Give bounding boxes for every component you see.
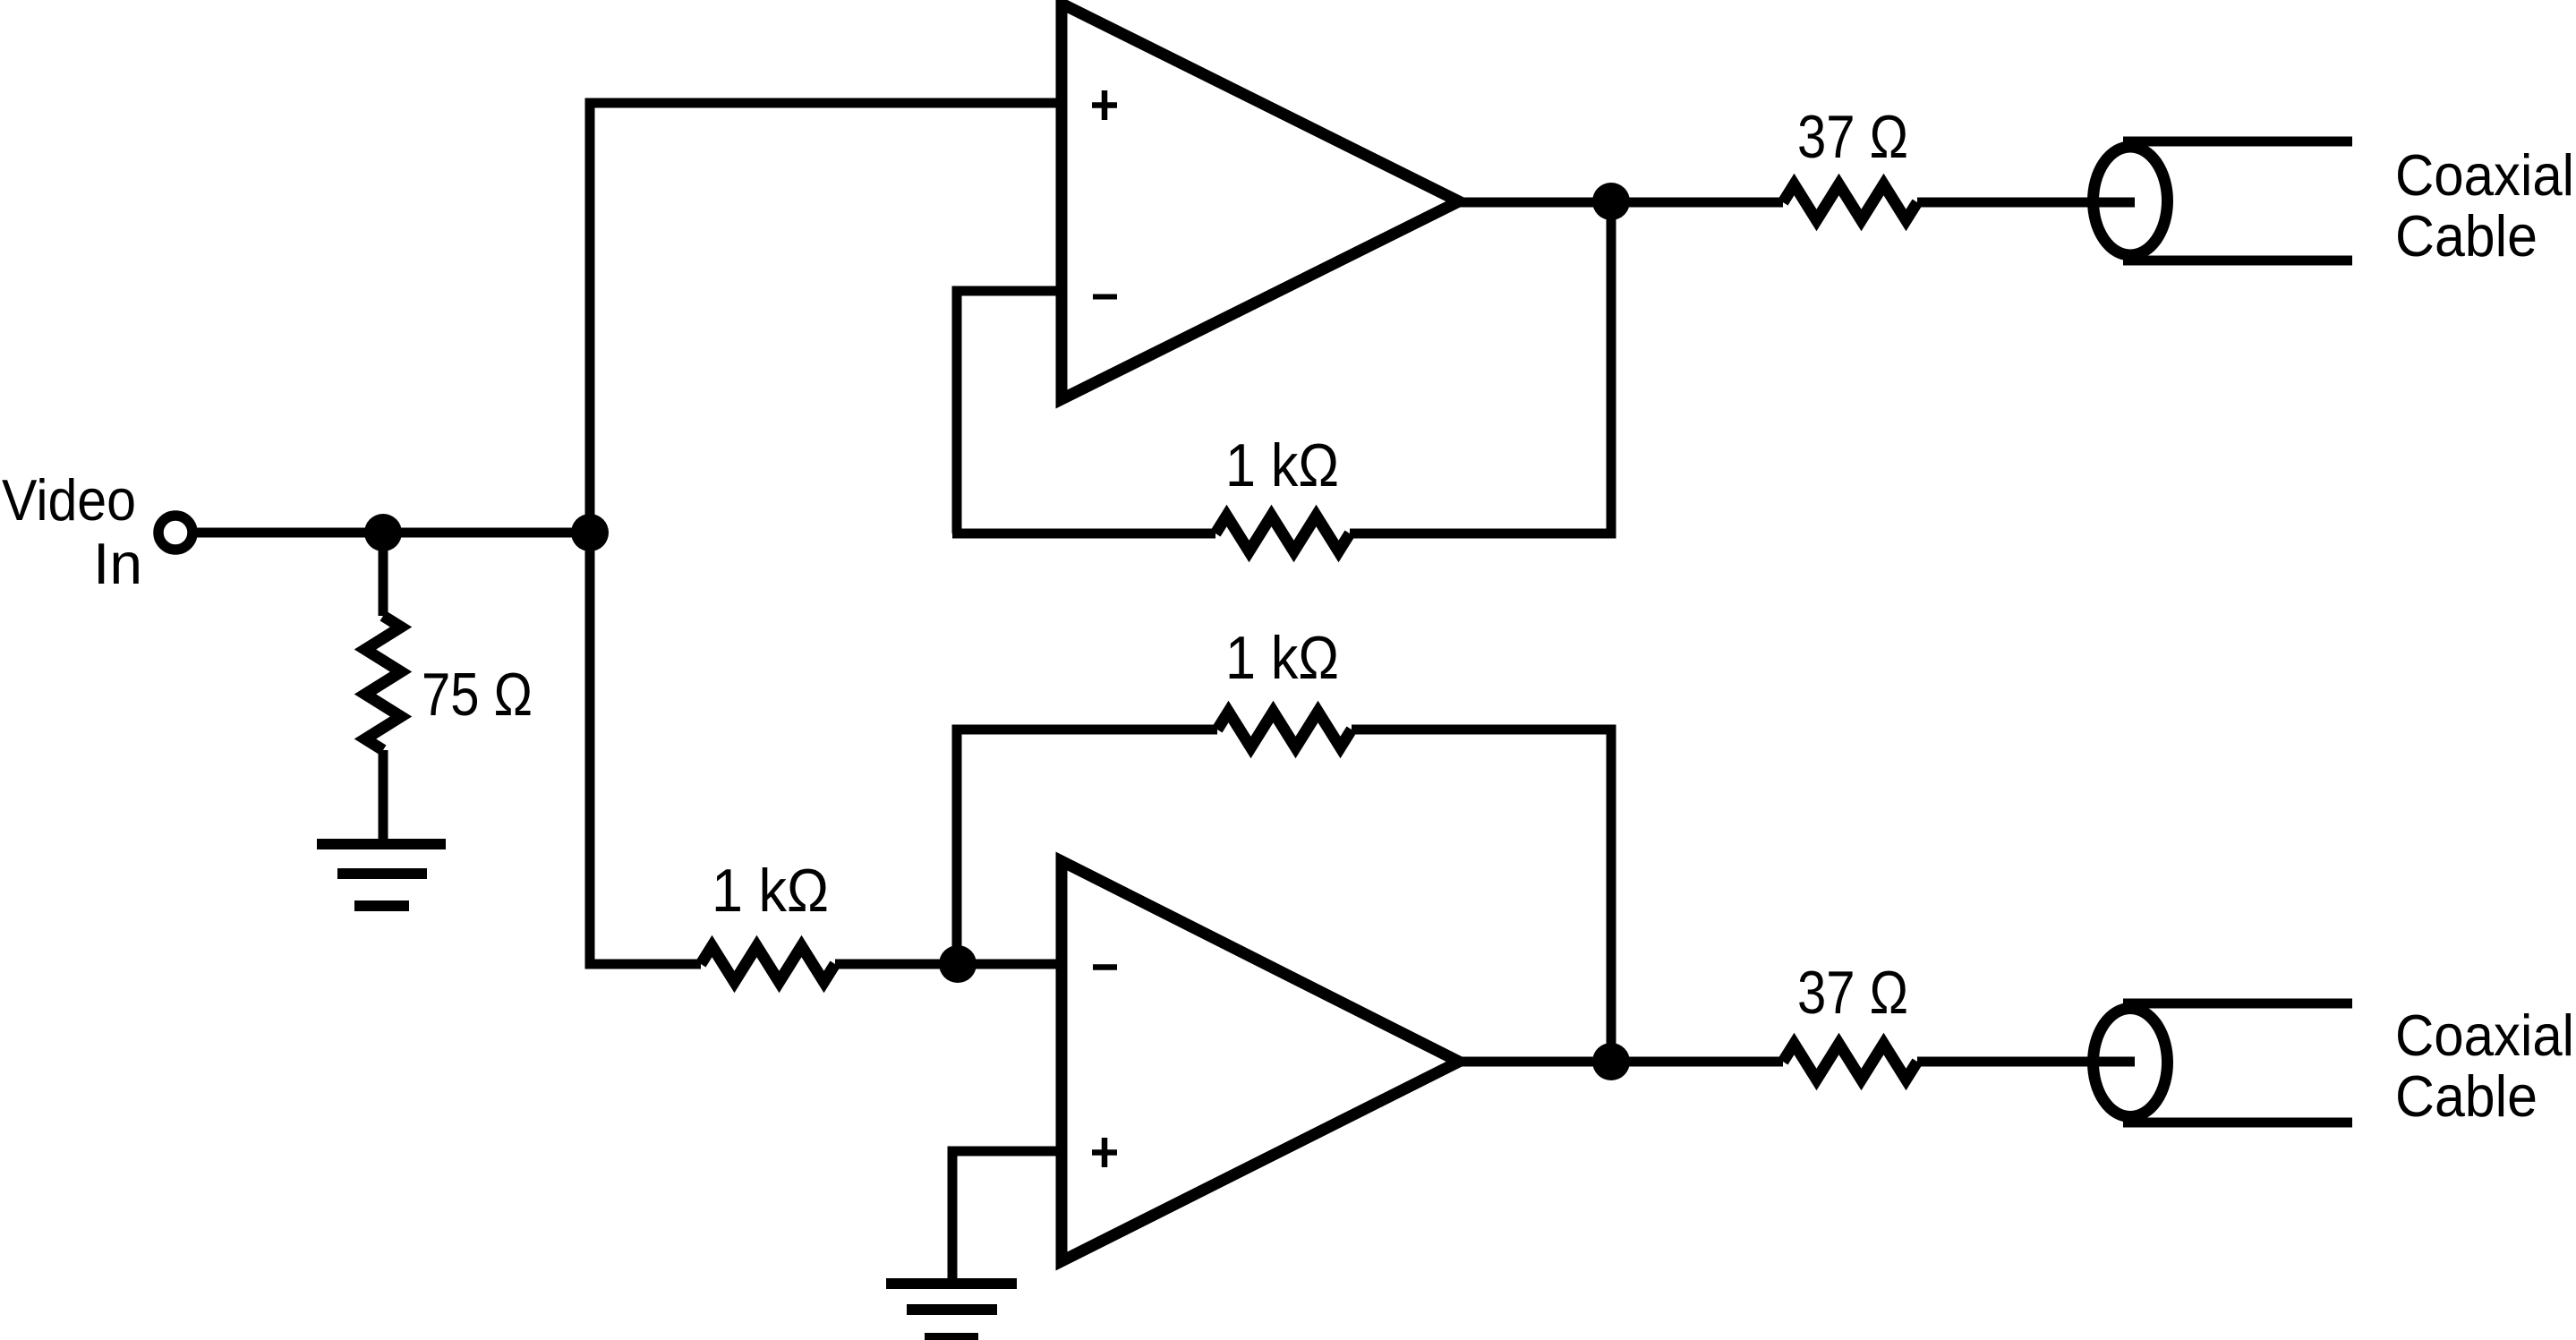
wire: top feedback right segment up to output [1350,201,1611,533]
label Video In [2,467,142,596]
wire: + input of U2 to ground [952,1151,1062,1284]
svg-text:Cable: Cable [2395,1063,2538,1129]
- sign of U1 [1093,294,1117,300]
+ sign of U1 [1092,90,1117,120]
junction at U2 - input node [939,945,977,983]
svg-text:75 Ω: 75 Ω [422,661,533,729]
resistor 37 ohm (bottom) [1783,1044,1917,1080]
ground G1 [317,839,446,849]
svg-text:1 kΩ: 1 kΩ [1225,431,1339,499]
node: Video In input terminal [158,516,192,550]
label Coaxial Cable (bottom) [2395,1003,2574,1129]
svg-text:In: In [93,531,142,596]
label Coaxial Cable (top) [2395,142,2574,269]
coax connector 2 (ellipse) [2094,1009,2168,1117]
wire: U1 output [1459,198,1783,208]
+ sign of U2 [1092,1138,1117,1167]
wire: 37 ohm to coax 1 [1917,198,2135,208]
wire: U2 output [1459,1057,1783,1067]
svg-text:Coaxial: Coaxial [2395,142,2574,208]
resistor 75 ohm (vertical zigzag) [365,616,401,750]
wire: feedback 2 right segment down to output [1352,730,1611,1062]
wire: split node down to input resistor of U2 [590,533,701,964]
coax cable 2 body lines [2123,999,2352,1009]
wire: feedback 2 left vertical and top segment [957,730,1217,964]
resistor 37 ohm (top) [1783,184,1917,220]
svg-text:Video: Video [2,467,136,533]
svg-text:Coaxial: Coaxial [2395,1003,2574,1068]
wire: 37 ohm to coax 2 [1917,1057,2135,1067]
wire: Video In to split node [193,528,590,538]
wire: split node up to + input of top op-amp [590,103,1062,533]
svg-text:1 kΩ: 1 kΩ [712,857,829,925]
resistor 1 kOhm (top feedback) [1215,516,1350,551]
coax connector 1 (ellipse) [2094,147,2168,255]
- sign of U2 [1093,964,1117,970]
wire: - input of U1 to feedback [957,291,1062,533]
ground G2 [886,1278,1017,1289]
wire: top feedback left segment [952,529,1215,539]
wire: input resistor to - input of U2 [835,960,1062,969]
op-amp U1 (top) [1062,4,1459,399]
svg-text:37 Ω: 37 Ω [1797,959,1908,1027]
junction at U1 output [1592,183,1630,220]
resistor 1 kOhm (U2 input) [701,946,835,982]
coax cable 1 body lines [2123,137,2352,147]
wire: bottom lead of 75-ohm resistor [379,750,388,844]
svg-text:1 kΩ: 1 kΩ [1225,624,1339,692]
junction at U2 output [1592,1043,1630,1080]
resistor 1 kOhm (U2 feedback) [1217,712,1352,747]
svg-text:37 Ω: 37 Ω [1797,103,1908,171]
junction at split node [571,514,609,551]
svg-text:Cable: Cable [2395,203,2538,269]
junction at 75-ohm tap [364,514,402,551]
op-amp U2 (bottom) [1062,861,1459,1261]
wire: top lead of 75-ohm resistor [379,533,388,616]
